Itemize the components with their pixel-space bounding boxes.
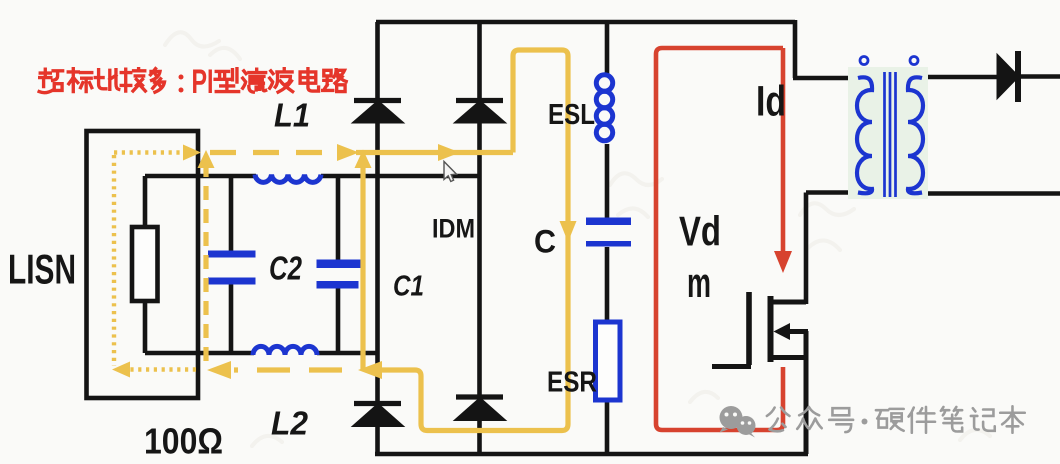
mouse cursor <box>444 162 457 182</box>
node: arrow left closing solid loop <box>358 361 382 379</box>
wire: top line from LISN through L1 to bridge <box>145 174 479 179</box>
Q1 drain lead <box>768 300 806 305</box>
node: arrow left on dashed bottom <box>207 361 231 379</box>
red colon <box>179 75 184 80</box>
inductor L2 <box>253 346 317 355</box>
faint background video watermarks <box>165 32 990 446</box>
T1 core background <box>848 67 928 199</box>
diode D2 (bridge top-right) <box>454 101 506 124</box>
svg-text:m: m <box>687 259 711 306</box>
diode D1 (bridge top-left) <box>352 101 404 124</box>
wire: LISN loop dotted top <box>114 150 186 154</box>
node: arrow right at top of dotted loop <box>183 145 201 161</box>
wire: dashed loop bottom <box>234 367 342 372</box>
Q1 channel bar <box>768 296 774 362</box>
svg-text:ESL: ESL <box>548 99 595 131</box>
wire: bottom rail <box>375 452 808 457</box>
Q1 gate lead <box>712 364 751 369</box>
node: arrow up on solid vertical <box>355 150 372 169</box>
wire: bridge right leg <box>477 22 482 454</box>
svg-text:C: C <box>534 224 556 260</box>
diode D3 (bridge bottom-left) <box>352 404 404 427</box>
svg-text:PI: PI <box>192 63 214 101</box>
svg-text:IDM: IDM <box>432 214 475 244</box>
LISN box <box>87 131 199 398</box>
svg-text:C2: C2 <box>269 250 303 287</box>
wire: C2 capacitor stem <box>229 176 234 353</box>
transformer T1 <box>848 57 928 200</box>
node: Id arrow head <box>774 251 792 273</box>
wire: solid loop over diode and down through C branch <box>382 50 568 431</box>
capacitor C2 plates <box>208 251 256 258</box>
wire: transformer primary bottom to MOSFET drain <box>806 193 860 305</box>
wire: dashed loop left vertical <box>203 163 208 367</box>
svg-text:ESR: ESR <box>547 367 597 399</box>
wire: bottom line from LISN through L2 to bridge <box>145 351 379 356</box>
svg-text:L2: L2 <box>271 405 309 442</box>
transistor Q1 MOSFET <box>712 292 808 454</box>
wire: dashed loop top <box>210 150 334 155</box>
wire: source down to bottom rail <box>804 331 809 454</box>
svg-text:LISN: LISN <box>8 246 76 293</box>
wire: bridge left leg <box>375 22 380 454</box>
inductor ESL <box>596 75 612 141</box>
inductor L1 <box>255 175 321 183</box>
T1 core laminations <box>885 72 896 197</box>
node: arrow left at bottom of dotted loop <box>112 362 130 378</box>
T1 phasing dot right <box>910 57 918 65</box>
T1 phasing dot left <box>860 57 868 65</box>
capacitor C1 plates <box>317 260 362 269</box>
wire: ESL/C/ESR branch leg segments <box>605 22 610 454</box>
Q1 body arrow <box>787 329 808 334</box>
wire: solid loop left vertical <box>360 162 365 370</box>
node: arrow right mid top segment <box>438 144 460 161</box>
diode D5 (output rectifier) <box>997 51 1019 102</box>
wire: red measurement loop <box>656 48 783 430</box>
resistor ESR <box>596 322 621 400</box>
svg-text:Vd: Vd <box>679 208 721 255</box>
wire: output diode cathode to edge <box>1018 74 1060 79</box>
T1 secondary winding <box>908 77 923 193</box>
wire: Id arrow vertical <box>781 48 786 255</box>
watermark text: gong zhong hao . ying jian bi ji ben <box>767 406 1025 432</box>
node: arrow down at capacitor C <box>560 221 577 242</box>
wire: top DC rail <box>376 20 795 25</box>
capacitor C plates <box>586 218 631 226</box>
wire: LISN loop dotted left vertical <box>112 155 116 366</box>
wire: rail drop to transformer primary top <box>793 20 860 78</box>
diode D4 (bridge bottom-right) <box>454 397 506 421</box>
node: arrow up on dashed vertical <box>198 150 215 168</box>
svg-text:C1: C1 <box>393 271 424 303</box>
watermark wechat logo <box>720 406 756 438</box>
wire: C1 capacitor stem <box>336 176 341 353</box>
wire: transformer secondary bottom to edge <box>922 191 1060 196</box>
red title: chao biao bi jiao duo : PI xing lv bo dian lu <box>39 63 346 101</box>
wire: LISN loop dotted bottom <box>126 367 196 371</box>
svg-text:Id: Id <box>756 78 786 126</box>
wire: LISN resistor leads <box>143 176 148 353</box>
Q1 source lead <box>768 355 806 360</box>
resistor R (LISN 100 ohm) <box>132 227 158 301</box>
Q1 gate bar <box>746 292 752 365</box>
node: arrow right on top line at bridge <box>337 144 359 161</box>
wire: solid loop top segment <box>356 150 513 155</box>
svg-text:100Ω: 100Ω <box>144 421 223 462</box>
wire: transformer secondary top to output diode <box>922 75 998 80</box>
T1 primary winding <box>857 77 872 193</box>
svg-text:L1: L1 <box>274 97 310 134</box>
